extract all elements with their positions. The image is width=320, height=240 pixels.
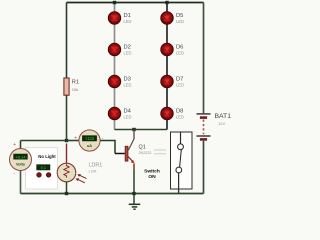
- voltmeter VM1: [10, 149, 32, 171]
- wire ammeter to base corner: [100, 141, 115, 154]
- LDR top pin: [66, 144, 68, 164]
- switch SW1 box: [171, 132, 193, 189]
- junction LED rail / collector: [132, 128, 135, 131]
- svg-text:LED: LED: [176, 114, 184, 119]
- svg-text:2N2222: 2N2222: [139, 151, 152, 155]
- wire node to ammeter: [67, 140, 80, 142]
- svg-text:Switch: Switch: [144, 168, 160, 174]
- LDR bottom pin: [66, 182, 68, 194]
- svg-text:BAT1: BAT1: [215, 113, 232, 120]
- svg-text:LED: LED: [124, 50, 132, 55]
- svg-text:LED: LED: [176, 19, 184, 24]
- No Light control box: [26, 148, 58, 190]
- resistor R1: [64, 78, 79, 95]
- wire emitter to bottom rail: [133, 164, 135, 171]
- wire LED column left (gray pins): [114, 3, 116, 130]
- svg-text:LED: LED: [124, 19, 132, 24]
- battery BAT1: [197, 113, 232, 140]
- svg-text:+0.14: +0.14: [15, 154, 26, 159]
- svg-text:Q1: Q1: [139, 145, 146, 151]
- svg-text:LED: LED: [124, 114, 132, 119]
- wire left vertical above R1: [66, 3, 68, 79]
- wire voltmeter drop: [20, 141, 22, 149]
- ammeter AM1: [79, 130, 100, 151]
- LDR light arrows: [76, 174, 87, 183]
- wire right rail (battery top feed): [203, 3, 205, 114]
- svg-text:R1: R1: [72, 80, 79, 86]
- wire LED column right (dark): [166, 3, 168, 130]
- LED D4: [108, 107, 131, 119]
- faint dashes right of Q1: [154, 150, 166, 154]
- junction top right column: [165, 1, 168, 4]
- svg-text:Volts: Volts: [16, 162, 25, 166]
- LED D8: [161, 107, 184, 119]
- wire node to voltmeter top: [21, 140, 67, 142]
- junction emitter bottom rail: [132, 192, 135, 195]
- wire base lead: [115, 153, 125, 155]
- wire switch to bottom rail: [178, 189, 180, 194]
- LED D6: [161, 43, 184, 55]
- svg-text:uA: uA: [87, 144, 92, 148]
- svg-text:LED: LED: [176, 82, 184, 87]
- wire top rail: [67, 2, 204, 4]
- svg-text:+: +: [74, 136, 77, 142]
- svg-text:0.1: 0.1: [41, 165, 46, 170]
- junction LDR bottom rail: [65, 192, 68, 195]
- wire bottom rail: [21, 193, 204, 195]
- svg-text:ON: ON: [148, 174, 156, 180]
- junction top left column: [113, 1, 116, 4]
- svg-text:-: -: [13, 171, 15, 177]
- transistor Q1: [125, 130, 151, 164]
- ground: [129, 195, 141, 209]
- svg-text:LDR: LDR: [89, 168, 97, 173]
- LED D7: [161, 75, 184, 87]
- LED D2: [108, 43, 131, 55]
- svg-text:+: +: [13, 142, 16, 148]
- svg-text:10k: 10k: [72, 87, 78, 92]
- switch label: [144, 168, 160, 180]
- LED D3: [108, 75, 131, 87]
- LED D1: [108, 12, 131, 24]
- wire battery to bottom rail: [203, 141, 205, 194]
- svg-text:LED: LED: [124, 82, 132, 87]
- svg-text:12V: 12V: [218, 121, 225, 126]
- junction node R1/meter/LDR: [65, 139, 68, 142]
- wire voltmeter to bottom rail: [20, 171, 22, 194]
- wire LED bottom rail: [115, 129, 168, 131]
- LED D5: [161, 12, 184, 24]
- LDR1: [57, 163, 102, 182]
- wire below R1 to node: [66, 95, 68, 140]
- svg-text:No Light: No Light: [38, 154, 56, 159]
- svg-text:+132: +132: [85, 136, 95, 141]
- svg-text:LED: LED: [176, 50, 184, 55]
